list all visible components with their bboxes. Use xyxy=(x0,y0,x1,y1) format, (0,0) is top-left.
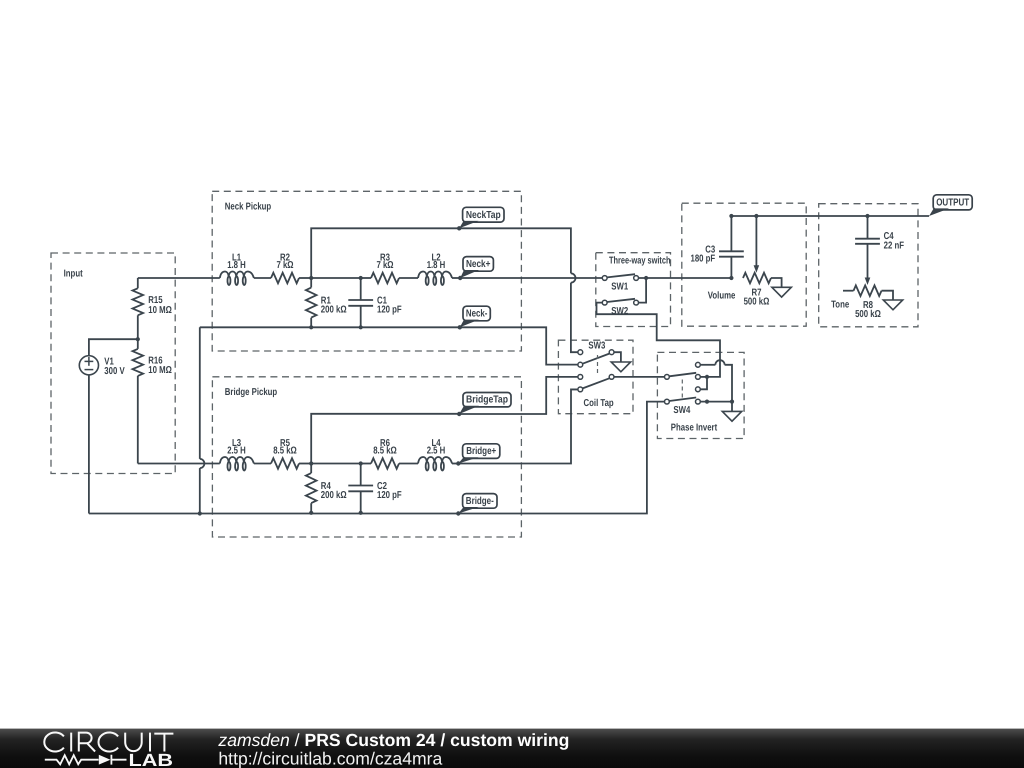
svg-text:BridgeTap: BridgeTap xyxy=(466,395,508,406)
svg-text:Neck-: Neck- xyxy=(466,309,488,320)
svg-text:120 pF: 120 pF xyxy=(377,304,402,315)
svg-text:180 pF: 180 pF xyxy=(691,253,716,264)
svg-text:200 kΩ: 200 kΩ xyxy=(321,490,347,501)
svg-text:200 kΩ: 200 kΩ xyxy=(321,304,347,315)
svg-text:Volume: Volume xyxy=(708,291,736,302)
svg-text:NeckTap: NeckTap xyxy=(466,210,501,221)
svg-text:SW3: SW3 xyxy=(588,340,605,351)
svg-text:2.5 H: 2.5 H xyxy=(427,446,446,457)
svg-text:10 MΩ: 10 MΩ xyxy=(148,365,172,376)
svg-text:Bridge+: Bridge+ xyxy=(466,446,496,457)
svg-text:Tone: Tone xyxy=(831,299,849,310)
svg-text:Coil Tap: Coil Tap xyxy=(584,398,614,409)
svg-text:Neck+: Neck+ xyxy=(466,259,491,270)
svg-text:22 nF: 22 nF xyxy=(884,241,904,252)
svg-text:2.5 H: 2.5 H xyxy=(227,446,246,457)
svg-text:SW4: SW4 xyxy=(673,405,690,416)
svg-text:1.8 H: 1.8 H xyxy=(227,260,246,271)
svg-text:zamsden / PRS Custom 24 / cust: zamsden / PRS Custom 24 / custom wiring xyxy=(217,730,569,750)
svg-text:Bridge-: Bridge- xyxy=(466,496,494,507)
svg-text:Bridge Pickup: Bridge Pickup xyxy=(225,387,277,398)
svg-text:Input: Input xyxy=(64,268,84,279)
svg-text:LAB: LAB xyxy=(129,750,174,768)
svg-text:7 kΩ: 7 kΩ xyxy=(276,260,293,271)
svg-text:300 V: 300 V xyxy=(104,366,125,377)
svg-text:Neck Pickup: Neck Pickup xyxy=(225,202,271,213)
svg-text:500 kΩ: 500 kΩ xyxy=(855,309,881,320)
svg-text:OUTPUT: OUTPUT xyxy=(936,198,970,209)
svg-text:SW2: SW2 xyxy=(611,306,628,317)
svg-text:1.8 H: 1.8 H xyxy=(427,260,446,271)
svg-text:Three-way switch: Three-way switch xyxy=(609,255,671,266)
svg-text:SW1: SW1 xyxy=(611,281,628,292)
svg-text:8.5 kΩ: 8.5 kΩ xyxy=(373,446,397,457)
svg-text:120 pF: 120 pF xyxy=(377,490,402,501)
svg-text:Phase Invert: Phase Invert xyxy=(671,423,718,434)
svg-text:500 kΩ: 500 kΩ xyxy=(744,297,770,308)
svg-text:8.5 kΩ: 8.5 kΩ xyxy=(273,446,297,457)
svg-text:7 kΩ: 7 kΩ xyxy=(376,260,393,271)
svg-text:http://circuitlab.com/cza4mra: http://circuitlab.com/cza4mra xyxy=(218,749,442,768)
svg-text:10 MΩ: 10 MΩ xyxy=(148,305,172,316)
